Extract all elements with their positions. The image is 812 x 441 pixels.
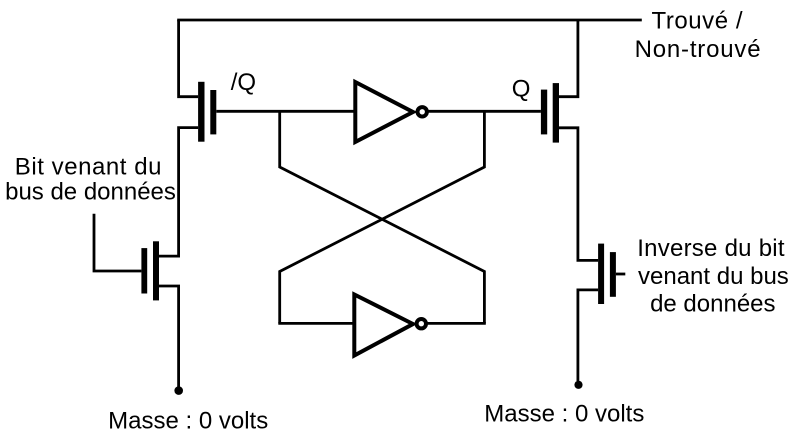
svg-text:Inverse du bit: Inverse du bit bbox=[637, 235, 785, 262]
inverter U1 output bubble bbox=[418, 107, 427, 116]
svg-text:Bit venant du: Bit venant du bbox=[15, 154, 162, 181]
wire: top rail (match line / Trouvé net) bbox=[177, 19, 642, 22]
svg-text:bus de données: bus de données bbox=[5, 179, 176, 206]
wire: Q3 source down to left ground bbox=[159, 286, 179, 388]
wire: U1 output to Q node and Q2 gate bbox=[427, 110, 541, 113]
transistor Q2 (top-right, gate on Q) gate bar bbox=[541, 90, 547, 135]
transistor Q1 gate bar bbox=[210, 90, 216, 134]
svg-text:Non-trouvé: Non-trouvé bbox=[635, 36, 762, 63]
wire: inverter U2 output to right vertical bbox=[426, 322, 486, 325]
wire: Q4 gate stub to Inverse label bbox=[616, 273, 625, 276]
inverter U2 (bottom) triangle bbox=[354, 295, 413, 356]
svg-text:/Q: /Q bbox=[231, 69, 256, 96]
svg-text:Trouvé /: Trouvé / bbox=[652, 8, 744, 35]
wire: Q2 drain stub up right rail to top rail bbox=[559, 20, 578, 97]
wire: cross-coupling left drop and diagonal to bottom right bbox=[280, 111, 485, 323]
ground dot (right) bbox=[574, 381, 582, 389]
transistor Q2 channel bar bbox=[553, 83, 559, 143]
transistor Q3 channel bar bbox=[153, 241, 159, 300]
inverter U1 (top) triangle bbox=[355, 82, 413, 142]
wire: bottom feedback into inverter U2 input bbox=[278, 322, 354, 325]
transistor Q1 (top-left, gate on /Q) channel bar bbox=[198, 82, 204, 142]
wire: Q1 source stub down left rail to Q3 drain bbox=[159, 128, 198, 257]
wire: left rail upper segment from top rail to Q1 drain bbox=[179, 20, 199, 97]
svg-text:Masse : 0 volts: Masse : 0 volts bbox=[108, 407, 268, 434]
label: Bit venant du bus de données bbox=[5, 154, 176, 206]
wire: Q2 source down right rail to Q4 drain bbox=[559, 128, 598, 261]
wire: /Q node from Q1 gate to inverter U1 input bbox=[216, 110, 355, 113]
ground dot (left) bbox=[174, 386, 183, 395]
wire: Q3 gate lead from Bit label bbox=[94, 214, 141, 271]
label: Trouvé / Non-trouvé output bbox=[635, 8, 762, 63]
svg-text:venant du bus: venant du bus bbox=[638, 263, 789, 290]
wire: Q4 source down to right ground bbox=[578, 290, 598, 381]
label: Inverse du bit venant du bus de données bbox=[637, 235, 789, 318]
inverter U2 output bubble bbox=[417, 319, 426, 328]
wire: cross-coupling right drop and diagonal to bottom left bbox=[280, 111, 485, 323]
transistor Q4 gate bar bbox=[610, 252, 616, 297]
svg-text:Masse : 0 volts: Masse : 0 volts bbox=[484, 400, 644, 427]
transistor Q3 (bottom-left, gate from data bus bit) gate bar bbox=[141, 248, 147, 293]
svg-text:de données: de données bbox=[650, 291, 775, 318]
transistor Q4 (bottom-right, gate from inverted bit) channel bar bbox=[598, 244, 604, 304]
svg-text:Q: Q bbox=[512, 76, 531, 103]
